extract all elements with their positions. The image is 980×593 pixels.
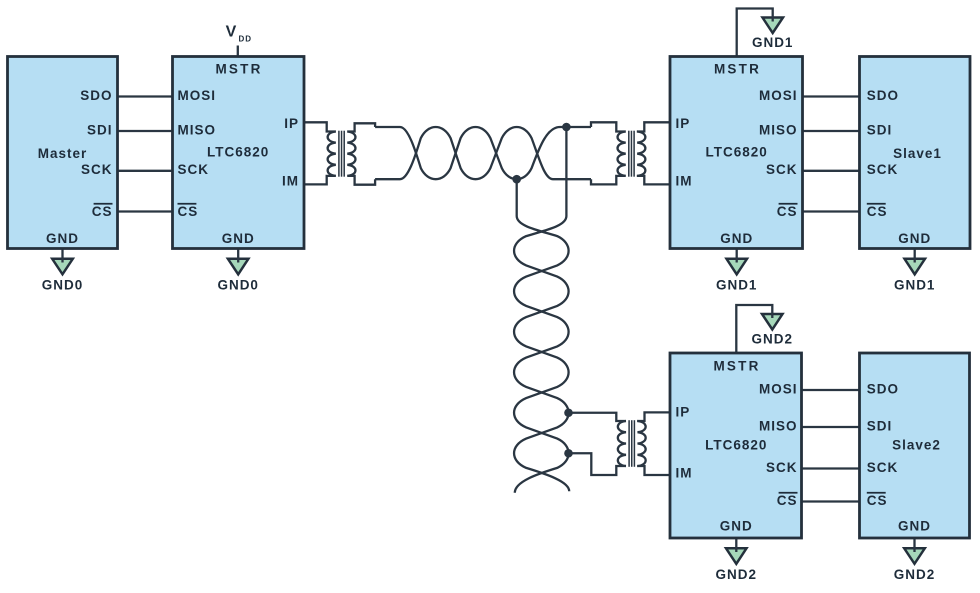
svg-text:CS: CS	[178, 204, 199, 219]
svg-text:SDO: SDO	[80, 88, 112, 103]
svg-text:SCK: SCK	[766, 162, 798, 177]
svg-text:CS: CS	[777, 204, 798, 219]
svg-text:IM: IM	[282, 174, 299, 189]
svg-text:IP: IP	[676, 404, 691, 419]
svg-text:SCK: SCK	[867, 460, 899, 475]
svg-text:IP: IP	[676, 116, 691, 131]
svg-text:IP: IP	[284, 116, 299, 131]
svg-text:GND1: GND1	[752, 35, 794, 50]
svg-text:IM: IM	[676, 174, 693, 189]
svg-text:CS: CS	[867, 493, 888, 508]
svg-text:GND: GND	[720, 231, 753, 246]
svg-text:GND: GND	[46, 231, 79, 246]
svg-text:V: V	[226, 23, 238, 40]
svg-text:MISO: MISO	[759, 122, 798, 137]
svg-text:Slave1: Slave1	[893, 146, 942, 161]
svg-text:SDI: SDI	[87, 122, 113, 137]
svg-text:MSTR: MSTR	[215, 61, 262, 76]
svg-text:GND1: GND1	[716, 277, 758, 292]
svg-text:DD: DD	[239, 34, 253, 43]
svg-text:SDO: SDO	[867, 381, 899, 396]
svg-text:GND0: GND0	[42, 277, 84, 292]
svg-text:IM: IM	[676, 465, 693, 480]
svg-text:LTC6820: LTC6820	[705, 437, 767, 452]
svg-text:CS: CS	[867, 204, 888, 219]
svg-text:MOSI: MOSI	[759, 381, 798, 396]
svg-text:SDI: SDI	[867, 418, 893, 433]
svg-text:GND: GND	[720, 518, 753, 533]
svg-text:GND: GND	[898, 231, 931, 246]
svg-text:MOSI: MOSI	[759, 88, 798, 103]
svg-text:MISO: MISO	[178, 122, 217, 137]
svg-text:CS: CS	[92, 204, 113, 219]
svg-text:CS: CS	[777, 493, 798, 508]
svg-text:GND0: GND0	[217, 277, 259, 292]
svg-text:SDO: SDO	[867, 88, 899, 103]
svg-text:GND2: GND2	[716, 567, 758, 582]
svg-text:MISO: MISO	[759, 418, 798, 433]
svg-text:LTC6820: LTC6820	[207, 144, 269, 159]
svg-text:GND: GND	[222, 231, 255, 246]
svg-text:SDI: SDI	[867, 122, 893, 137]
svg-text:SCK: SCK	[81, 162, 113, 177]
svg-text:MOSI: MOSI	[178, 88, 217, 103]
svg-text:LTC6820: LTC6820	[706, 144, 768, 159]
svg-text:GND: GND	[898, 518, 931, 533]
svg-text:SCK: SCK	[766, 460, 798, 475]
svg-text:MSTR: MSTR	[714, 61, 761, 76]
svg-text:GND2: GND2	[894, 567, 936, 582]
svg-text:GND1: GND1	[894, 277, 936, 292]
svg-text:SCK: SCK	[867, 162, 899, 177]
svg-text:SCK: SCK	[178, 162, 210, 177]
svg-text:Master: Master	[38, 146, 88, 161]
svg-text:MSTR: MSTR	[713, 358, 760, 373]
svg-text:GND2: GND2	[752, 331, 794, 346]
svg-text:Slave2: Slave2	[892, 437, 941, 452]
